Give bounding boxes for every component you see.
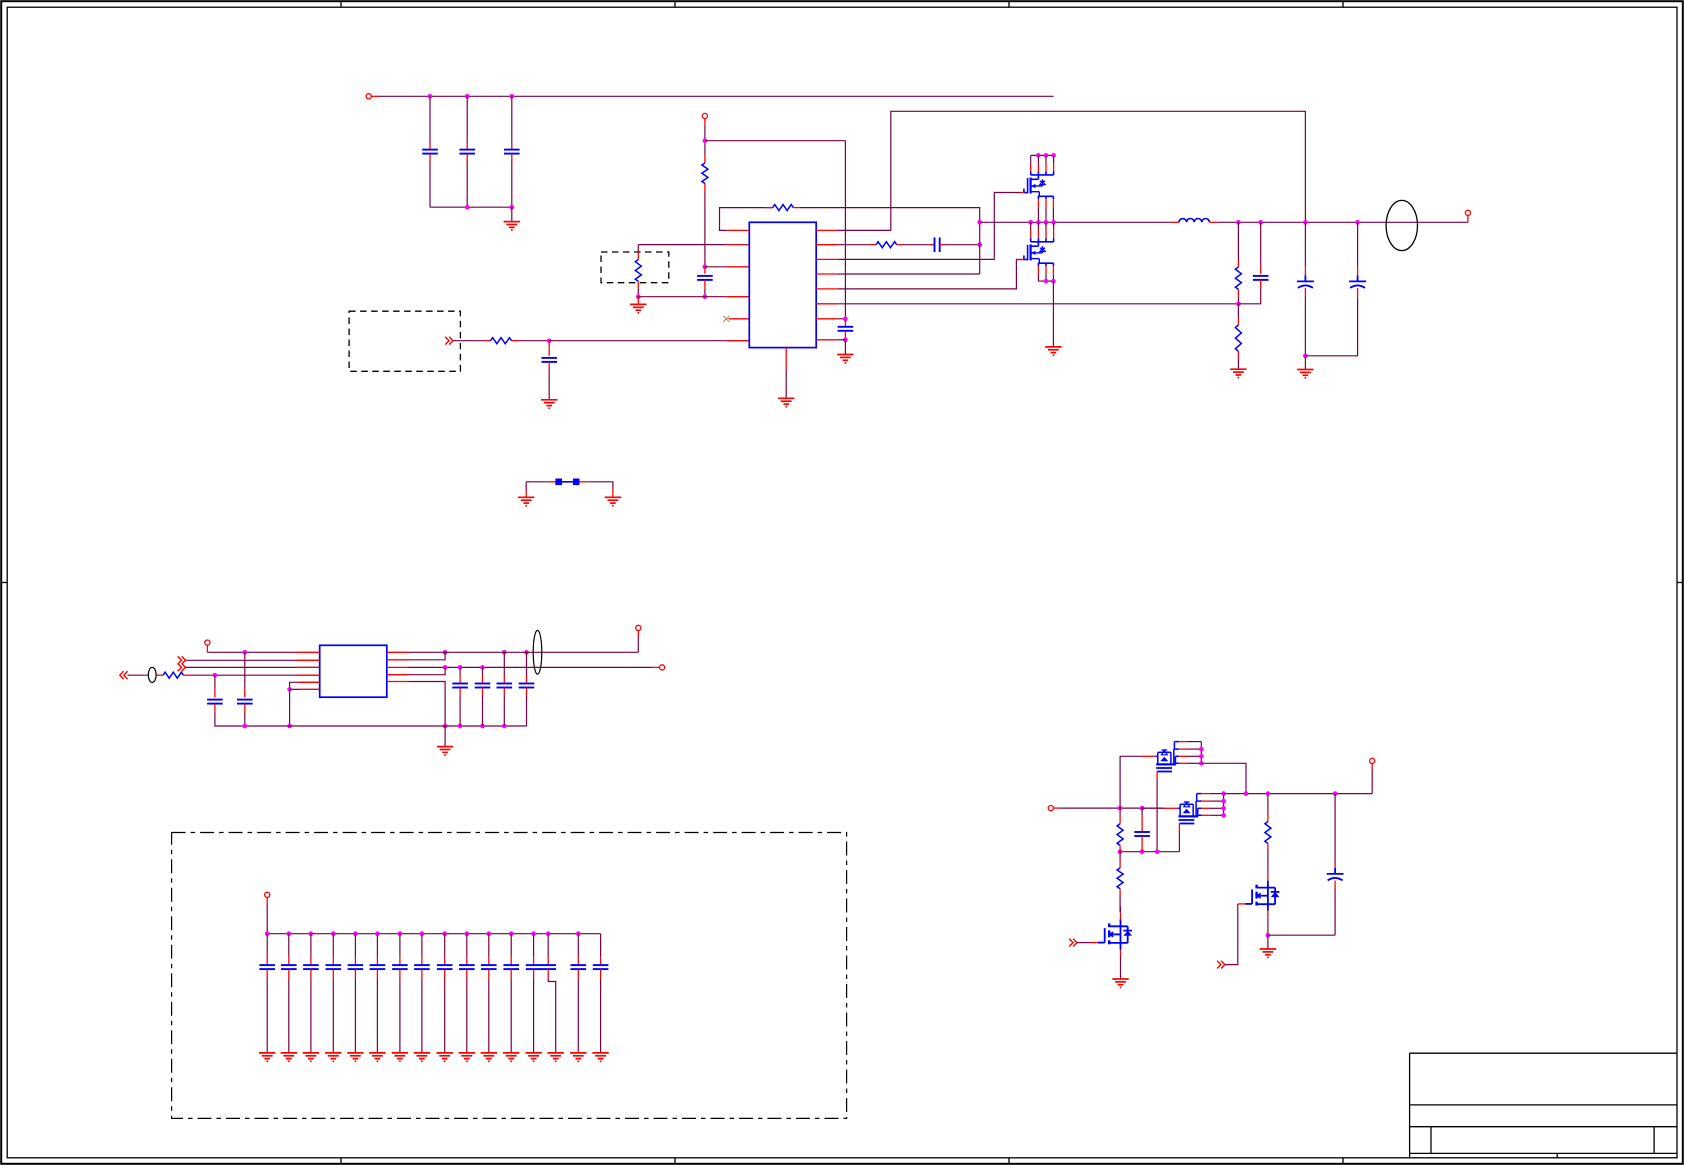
wire gnd stem <box>1304 356 1306 370</box>
junction bypass bus <box>509 931 514 936</box>
pin C13.1 <box>482 676 484 684</box>
pins source <box>1038 266 1053 275</box>
wire C29 top lead <box>466 934 468 957</box>
wire comp to R3 <box>838 244 870 246</box>
junction Q3 <box>1199 754 1204 759</box>
capacitor C21 <box>281 965 297 969</box>
wire HS gate <box>838 193 1020 260</box>
wire row10 to C7 <box>838 318 846 320</box>
pin C23.2 <box>332 969 334 979</box>
junction Q1 drain <box>1044 153 1049 158</box>
ground GND-D6 <box>392 1053 408 1061</box>
pin CA.1 <box>1304 266 1306 275</box>
pin T1 left 5 <box>298 681 320 683</box>
junction bypass bus <box>546 931 551 936</box>
wire Q5 source to ground <box>1120 956 1122 979</box>
capacitor C11 <box>237 700 253 704</box>
ground GND8 <box>1297 370 1313 378</box>
capacitor C1 <box>422 150 438 154</box>
pin C7.2 <box>844 331 846 340</box>
wire C13 bottom <box>482 696 484 726</box>
wire drain stubs <box>1031 155 1054 163</box>
zone tick right <box>1677 582 1683 584</box>
wire C26 top lead <box>399 934 401 957</box>
wire FB <box>838 303 1239 305</box>
junction bypass bus <box>375 931 380 936</box>
pin C210.1 <box>488 957 490 965</box>
capacitor C24 <box>348 965 364 969</box>
inductor L1 <box>1179 218 1209 222</box>
pin R9.1 <box>1119 816 1121 824</box>
pin U1.4 <box>726 296 749 298</box>
wire R7 node to U1 row4 node <box>638 296 705 298</box>
pin C211.2 <box>510 969 512 979</box>
wire row2R join <box>409 652 446 660</box>
junction Q2 source 2 <box>1051 279 1056 284</box>
pin C212.1 <box>533 957 535 965</box>
wire C16 top lead <box>1141 808 1143 816</box>
capacitor C210 <box>481 965 497 969</box>
wire C213 bottom jog <box>548 979 556 1053</box>
capacitor C27 <box>414 965 430 969</box>
transistor Q6 (NMOS) <box>1238 868 1280 918</box>
pin Q5 gate <box>1091 942 1098 944</box>
wire R6 top lead <box>1237 304 1239 318</box>
pin C29.1 <box>466 957 468 965</box>
pin C14.1 <box>503 676 505 684</box>
wire C14 top <box>503 652 505 675</box>
ground GND-D13 <box>548 1053 564 1061</box>
MOSFET symbol <box>1024 244 1045 263</box>
wire T1 gnd bus <box>290 725 527 727</box>
IC U1 body <box>749 222 816 347</box>
wire line3 <box>186 666 320 668</box>
power port P6 <box>660 665 665 670</box>
junction VIN-C1 <box>428 94 433 99</box>
junction out-Q3link <box>1244 791 1249 796</box>
transistor Q4 (lower PMOS) <box>1164 794 1226 831</box>
ground GND2 <box>630 304 646 312</box>
junction gn-C16 <box>1140 849 1145 854</box>
bypass bank box (dash-dot) <box>172 833 847 1119</box>
ground GND6 <box>1045 347 1061 355</box>
pin R2.1 <box>766 207 773 209</box>
pin R3.1 <box>870 244 876 246</box>
power port P2 VCC <box>702 113 707 118</box>
wire C213 top lead <box>547 934 549 957</box>
pin C13.2 <box>482 688 484 697</box>
wire C20 bottom lead <box>266 979 268 1053</box>
ground GND-D5 <box>369 1053 385 1061</box>
capacitor C22 <box>303 965 319 969</box>
net tie W1 <box>555 479 579 486</box>
junction VCC branch <box>703 138 708 143</box>
wire C10 bottom <box>215 712 290 726</box>
wire Q6 gate link <box>1225 904 1238 965</box>
ground GND-D2 <box>303 1053 319 1061</box>
pin NT.2 <box>580 481 587 483</box>
junction line4-C10 <box>213 673 218 678</box>
pin C3.1 <box>511 143 513 150</box>
power port P5 <box>636 625 641 630</box>
capacitor C13 <box>475 684 491 688</box>
junction switch node <box>1044 220 1049 225</box>
wire rail to Q4 <box>1142 807 1164 809</box>
wire C4 to row4 node <box>704 289 706 297</box>
wire C3 bottom lead <box>511 161 513 207</box>
pin C213.1 <box>547 957 549 965</box>
junction C7 bottom <box>843 337 848 342</box>
pin R3.2 <box>897 244 903 246</box>
wire row1R <box>409 651 639 653</box>
wire row13 <box>838 273 980 275</box>
junction VOUT-R5 <box>1236 220 1241 225</box>
transistor Q4 symbol <box>1178 794 1202 824</box>
ground GND13 <box>1260 949 1276 957</box>
wire ctrl1 <box>1077 942 1091 944</box>
wire C21 bottom lead <box>288 979 290 1053</box>
junction switch node <box>1028 220 1033 225</box>
wire C212 top lead <box>533 934 535 957</box>
wire C5 to ground <box>548 370 550 400</box>
junction rail-R9 <box>1118 806 1123 811</box>
junction bypass bus <box>331 931 336 936</box>
pin C26.1 <box>399 957 401 965</box>
wire row2L to R7 <box>638 244 726 246</box>
pin Q6 gate <box>1238 903 1245 905</box>
pin C9.1 <box>1260 266 1262 274</box>
resistor R9 <box>1117 824 1123 846</box>
pin C15.2 <box>526 688 528 697</box>
pin C12.2 <box>459 688 461 697</box>
wire R11 lead <box>1267 794 1269 814</box>
wire source stubs <box>1038 208 1053 222</box>
junction row3-C12 <box>458 665 463 670</box>
junction node-row3L <box>703 264 708 269</box>
pin U1.3 <box>726 266 749 268</box>
power port P4 <box>205 640 210 645</box>
MOSFET drain bracket <box>1031 238 1054 246</box>
ground GND10 <box>605 497 621 505</box>
wire source stubs <box>1038 275 1053 281</box>
junction VOUT-C9 <box>1258 220 1263 225</box>
wire C215 top lead <box>600 934 602 957</box>
wire R7 to gnd node <box>637 288 639 296</box>
wire VIN rail <box>380 95 1054 97</box>
wire C3 top lead <box>511 96 513 142</box>
pin U1.5 <box>729 318 750 320</box>
zone tick top 3 <box>1008 1 1010 7</box>
wire Q3 source to rail <box>1120 756 1141 808</box>
wire Q3 drain bus <box>1187 742 1201 764</box>
junction node-row4L <box>703 294 708 299</box>
wire line56 down <box>289 689 291 726</box>
wire C2 bottom lead <box>466 161 468 207</box>
wire C7 to ground <box>844 340 846 355</box>
wire C214 top lead <box>577 934 579 957</box>
pin C4.1 <box>704 267 706 274</box>
pin CB.1 <box>1357 266 1359 275</box>
resistor R8 <box>163 672 183 678</box>
pin R11.2 <box>1267 844 1269 850</box>
pin C21.2 <box>288 969 290 979</box>
junction bus-C11 <box>242 724 247 729</box>
wire C10 top <box>214 675 216 689</box>
capacitor C5 <box>541 358 557 362</box>
wire bypass bus <box>267 933 600 935</box>
wire C22 top lead <box>310 934 312 957</box>
wire C28 bottom lead <box>444 979 446 1053</box>
pin Q6 source <box>1267 911 1269 918</box>
pin C215.1 <box>600 957 602 965</box>
pin C11.2 <box>244 704 246 712</box>
pin U1.9 <box>816 339 838 341</box>
pin T1 left 3 <box>296 666 320 668</box>
junction gn-R9 <box>1118 849 1123 854</box>
source box (dashed) <box>349 311 460 371</box>
pin of P8 <box>1053 807 1060 809</box>
capacitor CA (polarised) <box>1297 275 1314 288</box>
junction Q4 <box>1221 813 1226 818</box>
capacitor C212 <box>526 965 542 969</box>
pin C10.2 <box>214 704 216 712</box>
junction FB <box>1236 301 1241 306</box>
MOSFET drain bracket <box>1031 171 1054 179</box>
wire R9 lead <box>1119 808 1121 816</box>
wire bypass column x845 <box>844 141 846 319</box>
wire top line <box>207 651 298 653</box>
wire C25 bottom lead <box>376 979 378 1053</box>
pin C7.1 <box>844 319 846 327</box>
capacitor C29 <box>459 965 475 969</box>
junction bypass bus <box>353 931 358 936</box>
capacitor C215 <box>593 965 609 969</box>
pin C210.2 <box>488 969 490 979</box>
wire switch node <box>980 221 1172 223</box>
wire Q4 gate down <box>1178 831 1180 852</box>
wire C215 bottom lead <box>600 979 602 1053</box>
pin Q4 gate <box>1178 824 1180 832</box>
pin R8.2 <box>183 674 190 676</box>
junction VIN-C3 <box>509 94 514 99</box>
capacitor C16 <box>1134 832 1150 836</box>
pin C29.2 <box>466 969 468 979</box>
wire net tie left <box>526 481 548 483</box>
capacitor C213 <box>540 965 556 969</box>
wire R5 top lead <box>1237 222 1239 259</box>
pin R7.1 <box>637 252 639 260</box>
capacitor C25 <box>370 965 386 969</box>
power port P3 VOUT <box>1465 210 1470 215</box>
pin C27.1 <box>421 957 423 965</box>
pin C27.2 <box>421 969 423 979</box>
wire EN <box>453 340 484 342</box>
ground GND12 <box>1112 979 1128 987</box>
transistor Q1 (high side) <box>1024 153 1056 222</box>
pin to GND10 <box>612 490 614 498</box>
pin C14.2 <box>503 688 505 697</box>
wire VOUT to port <box>1467 215 1469 222</box>
wire R10 lead <box>1119 852 1121 861</box>
pin CA.2 <box>1304 288 1306 297</box>
wire C28 top lead <box>444 934 446 957</box>
pin C21.1 <box>288 957 290 965</box>
wire C211 bottom lead <box>510 979 512 1053</box>
pin T1 right 4 <box>387 674 409 676</box>
ground GND-D10 <box>481 1053 497 1061</box>
wire C23 top lead <box>332 934 334 957</box>
sheet entry chevron ctrl1 <box>1069 939 1077 947</box>
pin C1.1 <box>429 143 431 150</box>
pin C26.2 <box>399 969 401 979</box>
wire input rail <box>1060 807 1164 809</box>
pin T1 right 5 <box>387 681 409 683</box>
wire C29 bottom lead <box>466 979 468 1053</box>
pin C215.2 <box>600 969 602 979</box>
wire Q3 bus link <box>1201 763 1246 793</box>
wire Q2 source to ground <box>1052 281 1054 347</box>
junction Q2 source <box>1044 279 1049 284</box>
pin C4.2 <box>704 280 706 289</box>
junction switch node <box>1036 220 1041 225</box>
wire C21 top lead <box>288 934 290 957</box>
junction top-C11 <box>242 650 247 655</box>
pin of P9 <box>1371 764 1373 771</box>
wire C17 bottom lead <box>1334 889 1336 935</box>
pin R5.2 <box>1237 289 1239 296</box>
pin C212.2 <box>533 969 535 979</box>
wire BST <box>838 111 1306 230</box>
transformer T1 body <box>320 645 387 697</box>
junction gn-Q3g <box>1155 849 1160 854</box>
transistor Q2 (low side) <box>1024 222 1054 281</box>
pin T1 left 1 <box>296 651 320 653</box>
wire R10 to Q5 <box>1119 896 1121 912</box>
junction Q4 bus-rail <box>1221 791 1226 796</box>
wire C15 top <box>526 652 528 675</box>
title block outline <box>1410 1053 1677 1158</box>
pin R11.1 <box>1267 814 1269 822</box>
junction R7-row4 wire <box>636 294 641 299</box>
junction bus-289 <box>287 724 292 729</box>
power port P7 <box>265 892 270 897</box>
pin C28.2 <box>444 969 446 979</box>
zone tick left <box>1 582 7 584</box>
wire line2 <box>186 659 320 661</box>
ground GND-D12 <box>525 1053 541 1061</box>
pin T1 left 4 <box>296 674 320 676</box>
pin C28.1 <box>444 957 446 965</box>
pin U1 bottom <box>785 348 787 369</box>
capacitor C4 <box>697 276 713 280</box>
MOSFET symbol <box>1024 178 1045 197</box>
wire LS gate <box>838 260 1025 289</box>
transistor Q5 (NMOS) <box>1091 907 1133 957</box>
ground GND-D7 <box>414 1053 430 1061</box>
ground GND5 <box>837 355 853 363</box>
pin R6.1 <box>1237 318 1239 326</box>
pin C1.2 <box>429 154 431 161</box>
no-connect on U1.5 <box>723 316 729 322</box>
pin C2.2 <box>466 154 468 161</box>
pin C15.1 <box>526 676 528 684</box>
junction bypass bus <box>398 931 403 936</box>
pin Q5 drain <box>1120 913 1122 920</box>
junction column-switch <box>977 220 982 225</box>
ground GND11 <box>437 747 453 755</box>
pin R2.2 <box>793 207 800 209</box>
junction VIN-C2 <box>465 94 470 99</box>
junction top-row2R <box>443 650 448 655</box>
resistor R2 <box>773 205 794 211</box>
pins Q3 drain <box>1179 742 1187 764</box>
junction VOUT-CA <box>1303 220 1308 225</box>
ground GND-D0 <box>259 1053 275 1061</box>
resistor R1 <box>702 163 708 184</box>
pin L1.2 <box>1209 221 1216 223</box>
junction bypass bus <box>265 931 270 936</box>
junction bypass bus <box>309 931 314 936</box>
pin of P4 <box>206 645 208 652</box>
wire R11 to Q6 <box>1267 849 1269 868</box>
wire Q5 drain lead <box>1120 907 1122 913</box>
wire gate network <box>1120 851 1179 853</box>
power port P9 <box>1370 758 1375 763</box>
wire P7 stem <box>266 905 268 934</box>
zone tick bottom 2 <box>674 1158 676 1164</box>
pin Q3 gate <box>1156 772 1158 780</box>
wire C11 bottom <box>244 712 246 726</box>
junction bus-445 <box>443 724 448 729</box>
capacitor C211 <box>503 965 519 969</box>
pin C23.1 <box>332 957 334 965</box>
wire line5 <box>290 682 320 689</box>
wire C11 top <box>244 652 246 689</box>
pins source <box>1038 199 1053 208</box>
zone tick bottom 4 <box>1342 1158 1344 1164</box>
pin R5.1 <box>1237 260 1239 267</box>
wire C1 bottom lead <box>429 161 431 207</box>
pin C3.2 <box>511 154 513 161</box>
capacitor C12 <box>452 684 468 688</box>
wire Q2 source bus <box>1038 280 1053 282</box>
wire C212 bottom lead <box>533 979 535 1053</box>
wire C24 top lead <box>354 934 356 957</box>
junction bus-C14 <box>502 724 507 729</box>
junction C7 top <box>843 316 848 321</box>
pin Q6 drain <box>1267 874 1269 881</box>
pin R10.1 <box>1119 860 1121 868</box>
wire row4R join <box>409 667 446 674</box>
junction bypass bus <box>531 931 536 936</box>
wire net tie left stem <box>525 482 527 490</box>
capacitor C20 <box>259 965 275 969</box>
pin C213.2 <box>547 969 549 979</box>
wire R8 to T1 <box>191 674 320 676</box>
capacitor C26 <box>392 965 408 969</box>
wire top line to P5 <box>637 638 639 652</box>
wire C20 top lead <box>266 934 268 957</box>
resistor R4 <box>491 338 512 344</box>
wire R1 to U1 pin3 node <box>704 192 706 267</box>
pin to ground GND2 <box>637 297 639 305</box>
pin of P2 <box>704 119 706 126</box>
junction bypass bus <box>486 931 491 936</box>
capacitor C17 (polarised) <box>1327 868 1344 881</box>
ground GND3 <box>541 400 557 408</box>
capacitor C23 <box>326 965 342 969</box>
junction Q4 <box>1221 799 1226 804</box>
